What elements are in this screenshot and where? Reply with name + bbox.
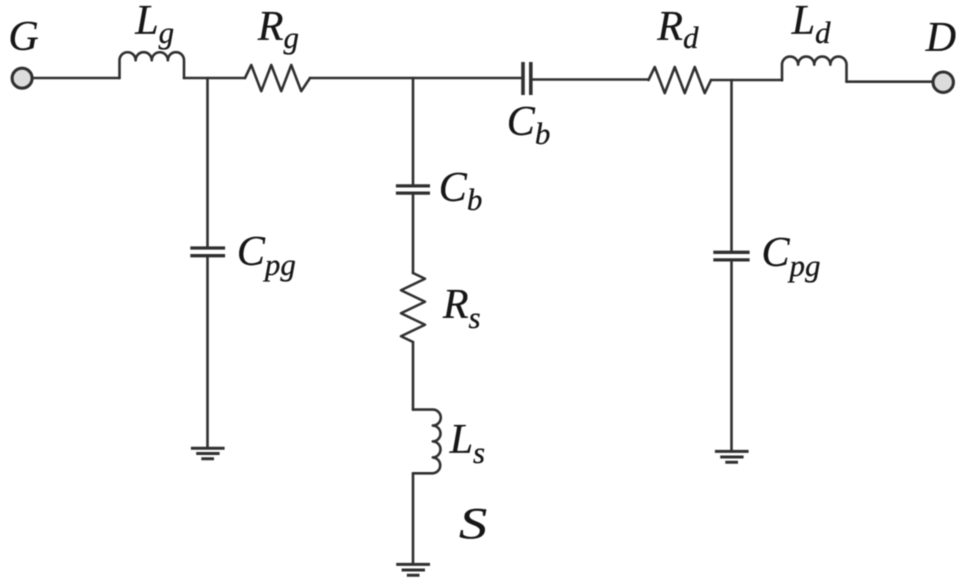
label Rs [443, 284, 481, 326]
wire Rd to Ld through node B [711, 79, 782, 82]
capacitor Cpg left plates [190, 248, 225, 256]
capacitor Cb series plates [523, 62, 531, 95]
label Rg [258, 6, 299, 48]
inductor Ls [413, 410, 441, 474]
wire Ld to D [847, 80, 934, 83]
wire node mid down to Cb mid [412, 78, 415, 184]
label Cb mid [439, 167, 483, 209]
wire Cpg left to ground [206, 257, 209, 446]
label D [926, 17, 956, 59]
label Lg [135, 0, 174, 42]
wire G to Lg [33, 77, 120, 80]
inductor Lg [120, 52, 185, 78]
wire Cb mid to Rs [412, 195, 415, 273]
ground right [715, 451, 749, 462]
label Cb series [507, 101, 551, 143]
resistor Rg [245, 65, 310, 91]
label Cpg left [237, 231, 296, 273]
wire Cpg right to ground [730, 262, 733, 450]
wire Rg to Cb series [310, 77, 521, 80]
terminal G [12, 68, 32, 88]
ground left [191, 448, 225, 458]
wire Cb to Rd [533, 78, 649, 81]
wire node A down to Cpg left [206, 78, 209, 246]
label G [8, 16, 38, 58]
label Ls [450, 419, 485, 461]
label Ld [792, 0, 831, 42]
ground middle [396, 564, 430, 575]
terminal D [933, 72, 953, 92]
wire Rs to Ls [412, 342, 415, 410]
resistor Rd [649, 67, 712, 93]
wire node B down to Cpg right [730, 80, 733, 251]
label Rd [657, 6, 698, 48]
inductor Ld [782, 57, 847, 82]
label Cpg right [762, 232, 821, 274]
capacitor Cb mid plates [396, 186, 430, 193]
label S [459, 502, 487, 546]
wire Lg to Rg through node A [184, 77, 245, 80]
wire Ls to ground S [412, 473, 415, 563]
capacitor Cpg right plates [713, 252, 749, 260]
resistor Rs [401, 273, 425, 342]
